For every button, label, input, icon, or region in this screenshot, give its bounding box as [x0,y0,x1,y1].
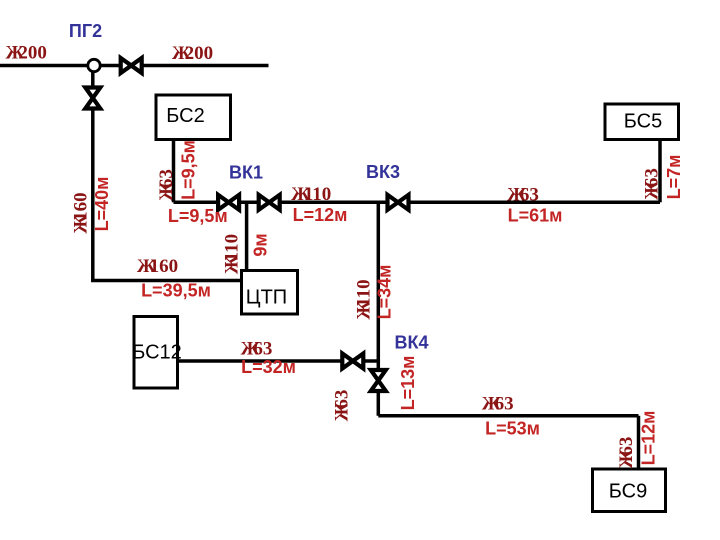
svg-text:Ж63: Ж63 [331,390,352,422]
wire: horizontal line from БС12 [178,359,379,363]
chamber ЦТП [242,271,298,315]
wire: main ВК1-ВК3 horizontal line [174,201,661,205]
valve: on БС12 line [342,354,363,369]
wire: horizontal Ж160 L=39,5м line to ЦТП [93,279,241,281]
chamber БС9 [593,469,666,512]
svg-text:ВК1: ВК1 [229,163,263,183]
svg-text:Ж160: Ж160 [137,256,178,277]
wire: drop to БС9 box [637,416,641,469]
wire: drop to ЦТП box [245,202,249,271]
valve: vertical valve below ПГ2 node [85,88,100,109]
svg-text:L=40м: L=40м [92,177,112,232]
svg-text:Ж63: Ж63 [641,168,662,200]
svg-text:L=9,5м: L=9,5м [178,140,198,200]
svg-text:Ж200: Ж200 [6,43,47,64]
svg-text:ЦТП: ЦТП [246,287,287,309]
svg-text:Ж63: Ж63 [507,185,539,206]
svg-text:БС2: БС2 [166,105,204,127]
chamber БС5 [605,104,679,140]
valve: ВК3 valve [388,195,409,210]
valve: on top Ж200 line right of ПГ2 [121,58,142,73]
svg-text:Ж63: Ж63 [482,394,514,415]
wire: drop from БС5 box [658,140,662,203]
svg-text:L=7м: L=7м [664,155,684,200]
svg-text:L=39,5м: L=39,5м [141,281,211,301]
svg-text:L=61м: L=61м [508,206,563,226]
svg-text:L=34м: L=34м [374,265,394,320]
wire: top main Ж200 horizontal line [0,64,269,68]
wire: bottom horizontal Ж63 L=53м line [378,414,638,418]
svg-text:9м: 9м [250,233,270,256]
wire: left vertical line from ПГ2 node down [91,66,95,281]
svg-text:L=32м: L=32м [241,357,296,377]
svg-text:Ж110: Ж110 [291,184,331,205]
svg-text:БС12: БС12 [132,342,182,364]
svg-text:L=13м: L=13м [398,356,418,411]
svg-text:БС9: БС9 [609,481,647,503]
wire: drop from БС2 box [172,140,176,203]
valve: ВК4 vertical valve [371,370,386,391]
svg-text:ВК4: ВК4 [395,333,429,353]
node: ПГ2 connection circle [88,59,100,71]
svg-text:Ж200: Ж200 [172,43,213,64]
svg-text:L=53м: L=53м [485,419,540,439]
svg-text:ПГ2: ПГ2 [69,21,102,41]
svg-text:Ж63: Ж63 [616,437,637,469]
valve: ВК1 left valve [218,195,239,210]
valve: ВК1 right valve [259,195,280,210]
svg-text:L=12м: L=12м [638,411,658,466]
wire: vertical line from ВК3 junction through ВК4 [377,202,381,415]
svg-text:Ж160: Ж160 [70,192,91,233]
svg-text:L=9,5м: L=9,5м [168,206,228,226]
svg-text:Ж110: Ж110 [353,279,374,319]
svg-text:Ж110: Ж110 [221,234,242,274]
svg-text:Ж63: Ж63 [156,169,177,201]
svg-text:L=12м: L=12м [293,205,348,225]
svg-text:ВК3: ВК3 [366,162,400,182]
svg-text:БС5: БС5 [624,111,662,133]
chamber БС12 [134,317,178,389]
chamber БС2 [156,95,231,140]
